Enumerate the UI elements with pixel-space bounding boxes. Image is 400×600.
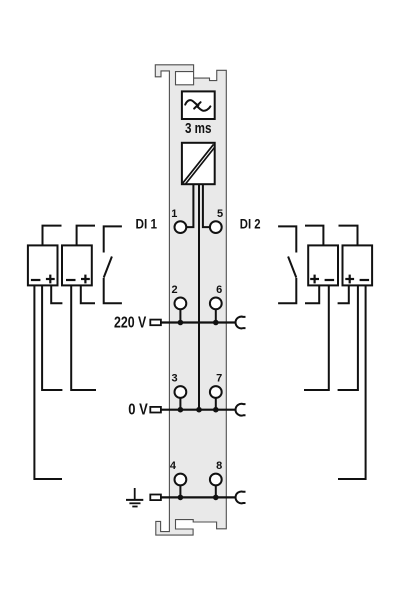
svg-text:6: 6 <box>216 284 222 296</box>
svg-text:2: 2 <box>172 284 178 296</box>
svg-text:7: 7 <box>216 373 222 385</box>
svg-text:3 ms: 3 ms <box>185 120 212 137</box>
svg-text:4: 4 <box>170 460 177 472</box>
svg-text:220 V: 220 V <box>114 315 147 332</box>
svg-text:8: 8 <box>216 460 222 472</box>
svg-text:1: 1 <box>171 208 177 220</box>
svg-text:0 V: 0 V <box>128 402 148 419</box>
svg-text:DI 2: DI 2 <box>240 216 261 232</box>
svg-text:DI 1: DI 1 <box>136 216 158 232</box>
svg-text:5: 5 <box>217 208 223 220</box>
svg-text:3: 3 <box>172 373 178 385</box>
